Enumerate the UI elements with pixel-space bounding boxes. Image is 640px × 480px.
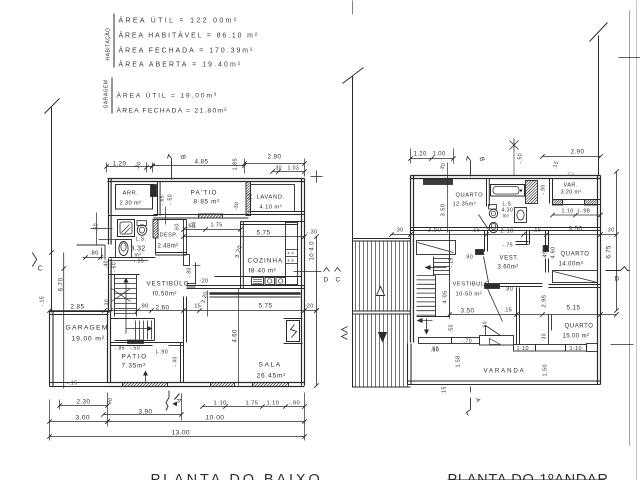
roof strip divider [353, 311, 411, 314]
bath2 bidet [489, 222, 497, 232]
bath bidet oval [116, 240, 132, 258]
patio dims [115, 346, 179, 367]
svg-text:ÀREA FECHADA = 21.80m²: ÀREA FECHADA = 21.80m² [117, 106, 228, 115]
svg-text:VESTIBÜLO: VESTIBÜLO [147, 281, 190, 288]
svg-text:L.S.: L.S. [136, 237, 147, 243]
vest label [498, 256, 520, 271]
right plan left wall [410, 176, 412, 343]
svg-text:13.00: 13.00 [172, 430, 191, 437]
dims .65 .50 below ARR [160, 194, 174, 225]
svg-text:12.35m²: 12.35m² [453, 202, 476, 208]
dim row 2.90 right plan [540, 149, 602, 171]
bath sink box [118, 220, 135, 237]
outer wall right [301, 179, 303, 386]
svg-text:ÁREA FECHADA = 170.39m²: ÁREA FECHADA = 170.39m² [119, 46, 255, 55]
svg-text:2.95: 2.95 [542, 295, 548, 308]
dim row 4.85 top [150, 158, 246, 171]
bath2 wall left [486, 179, 488, 207]
svg-text:-.15: -.15 [67, 381, 78, 387]
dim row .30 1.03 top-right [245, 159, 307, 177]
svg-text:·30: ·30 [395, 228, 404, 234]
garage walls [50, 312, 109, 387]
patio 7.35 label [122, 354, 148, 370]
svg-text:7.35m²: 7.35m² [122, 363, 147, 370]
vestibulo right wall stubs [184, 255, 208, 317]
right plan boundary right line with slash [590, 23, 608, 176]
svg-text:5.75: 5.75 [257, 230, 271, 237]
sala windows bottom [0, 0, 2, 2]
roof strip down arrow [379, 333, 387, 342]
svg-text:QUARTO: QUARTO [565, 324, 594, 330]
svg-text:.50: .50 [431, 347, 439, 353]
svg-text:·30: ·30 [542, 333, 548, 341]
dim row 3.50 5.15 right plan [447, 305, 618, 317]
patio bottom wall / window [154, 215, 249, 219]
quarto 12.35 label [453, 193, 484, 208]
varanda dims vertical [442, 355, 549, 394]
patio wall left [157, 182, 159, 216]
area info block - garagem [104, 78, 228, 115]
var bottom wall with hatches [553, 200, 601, 205]
svg-text:6.70: 6.70 [58, 278, 65, 292]
svg-text:6.75: 6.75 [607, 245, 613, 259]
svg-text:4.60: 4.60 [233, 329, 239, 343]
dim row 1.20 1.00 right plan [408, 149, 455, 173]
kitchen left wall [240, 222, 242, 289]
var window mark [568, 172, 576, 177]
mid dim row 2.85 .90 2.60 5.75 [47, 299, 318, 313]
svg-text:.15: .15 [504, 308, 513, 314]
svg-text:1.20: 1.20 [113, 161, 127, 168]
svg-text:PATIO: PATIO [122, 354, 148, 361]
roof strip bottom [353, 386, 411, 388]
svg-text:3.90: 3.90 [139, 409, 153, 416]
bath2 door leaf [479, 215, 489, 230]
svg-text:.60: .60 [175, 223, 181, 231]
svg-text:|-.98: |-.98 [578, 209, 591, 215]
svg-text:m²: m² [503, 214, 510, 220]
svg-text:.30: .30 [274, 166, 282, 172]
svg-text:5.75: 5.75 [259, 303, 273, 310]
dims 4.00 2.95 vertical [542, 245, 557, 308]
dim line 6.70 vertical garage [61, 253, 65, 389]
svg-text:3.60m²: 3.60m² [498, 265, 519, 271]
svg-text:1.50: 1.50 [543, 364, 549, 377]
desp label [158, 233, 179, 250]
window hatch patio bottom wall [123, 383, 168, 387]
svg-text:26.45m²: 26.45m² [257, 373, 287, 380]
svg-text:4.00: 4.00 [543, 245, 549, 258]
bath top wall [109, 215, 158, 217]
svg-text:4.60: 4.60 [551, 246, 557, 258]
svg-text:.60: .60 [192, 221, 198, 229]
wall right of vestibulo [517, 288, 520, 345]
quarto 14 wardrobe wedge [549, 271, 601, 288]
svg-text:PLANTA DO 1ºANDAR: PLANTA DO 1ºANDAR [448, 472, 609, 480]
svg-text:SALA: SALA [259, 362, 282, 369]
hatched duct wall right of bathtub [526, 181, 538, 204]
svg-text:-.50: -.50 [130, 346, 141, 352]
svg-text:3.50: 3.50 [428, 227, 442, 234]
svg-text:f8·40 m²: f8·40 m² [249, 268, 277, 275]
svg-text:1-10: 1-10 [570, 346, 582, 352]
stairwell right wall [449, 231, 451, 319]
bath2 sink [515, 208, 527, 223]
svg-text:.90: .90 [140, 304, 149, 310]
svg-text:.15: .15 [442, 386, 448, 394]
quarto 15 door swing [486, 326, 501, 336]
vest walls [476, 231, 530, 255]
svg-text:1·10: 1·10 [517, 346, 529, 352]
var hatch left [553, 200, 563, 206]
svg-text:-.15: -.15 [40, 296, 46, 307]
vest bottom wall [485, 284, 543, 293]
svg-text:10·4.0: 10·4.0 [310, 241, 316, 261]
svg-text:.80: .80 [90, 251, 99, 257]
vestibulo door leaf [488, 289, 503, 322]
svg-text:1.85: 1.85 [233, 158, 239, 171]
kitchen label [248, 258, 284, 275]
svg-text:-.50: -.50 [518, 153, 524, 164]
left boundary line with slash [45, 99, 60, 313]
title planta do 1 andar [448, 472, 609, 480]
outer wall bottom [109, 383, 305, 387]
svg-text:14.00m²: 14.00m² [559, 262, 584, 268]
svg-text:.15: .15 [472, 228, 481, 234]
svg-text:-.15: -.15 [134, 259, 145, 265]
sala left wall [184, 297, 187, 347]
desp walls [156, 220, 187, 256]
svg-text:1.75: 1.75 [246, 401, 259, 407]
dim row 3.50 2.10 3.50 [389, 226, 618, 237]
svg-text:3.00: 3.00 [76, 415, 90, 422]
dim 4.60 sala [233, 289, 239, 386]
door jamb right of ARR [151, 185, 157, 197]
var balcony label [561, 183, 582, 196]
svg-text:4.85: 4.85 [195, 159, 209, 166]
dim labels stair bottom [431, 321, 489, 353]
left arrows next to strip [342, 327, 348, 340]
svg-text:ARR.: ARR. [123, 191, 139, 197]
wall left of var [550, 179, 553, 204]
right plan main cross wall [411, 228, 601, 231]
svg-text:-.40: -.40 [173, 356, 179, 366]
bottom dim row 13.00 [47, 427, 306, 441]
svg-text:2.90: 2.90 [571, 149, 585, 156]
bottom dim row 1.10 1.75 1.10 .90 [200, 401, 306, 409]
entrance porch walk [77, 240, 117, 260]
bath2 labels [502, 202, 514, 220]
svg-text:PLANTA DO BAIXO: PLANTA DO BAIXO [151, 472, 323, 480]
kitchen top wall [241, 222, 305, 225]
svg-text:-.85: -.85 [115, 346, 126, 352]
svg-text:3.50: 3.50 [461, 308, 475, 315]
svg-text:ÀREA ABERTA = 19.40m²: ÀREA ABERTA = 19.40m² [119, 60, 243, 69]
svg-text:f0.50m²: f0.50m² [153, 291, 177, 298]
kitchen bottom wall [187, 286, 305, 298]
svg-text:19.00 m²: 19.00 m² [72, 336, 105, 343]
svg-text:.90: .90 [465, 255, 474, 261]
stairs right plan main flight [417, 276, 450, 335]
room ARR walls [116, 185, 153, 210]
kitchen cupboard star marks [287, 251, 295, 264]
house left wall garage side [107, 312, 109, 383]
svg-text:VARANDA: VARANDA [484, 368, 526, 375]
svg-text:-.70: -.70 [462, 339, 473, 345]
section marker A bottom right plan [467, 387, 482, 416]
dim row 2.90 top-right [242, 154, 306, 166]
svg-text:·20: ·20 [200, 279, 209, 285]
svg-text:.80: .80 [505, 287, 514, 293]
patio arrow [143, 371, 148, 382]
kitchen counter right wall [286, 223, 322, 285]
svg-text:LAVAND.: LAVAND. [257, 195, 285, 201]
area info block - habitacao [105, 14, 260, 69]
svg-text:C: C [38, 264, 44, 273]
roof strip hatching lower [356, 315, 408, 387]
svg-text:2.85: 2.85 [71, 304, 85, 311]
svg-text:QUARTO: QUARTO [561, 252, 590, 258]
roof strip hatching upper [356, 242, 408, 311]
right dim line 6.75 [607, 169, 619, 312]
dim .50 left wall [91, 213, 113, 245]
svg-text:ÀREA ÚTIL = 19.00m³: ÀREA ÚTIL = 19.00m³ [117, 91, 218, 100]
svg-text:GARAGEM: GARAGEM [104, 79, 110, 108]
svg-text:-.30: -.30 [307, 230, 318, 236]
sala heater [284, 319, 303, 344]
svg-text:3.20 m²: 3.20 m² [561, 190, 582, 196]
outer wall left lower [108, 259, 110, 312]
bath labels [131, 237, 147, 265]
kitchen counter bottom [215, 277, 302, 285]
bath toilet [137, 221, 147, 236]
svg-text:2.30 m²: 2.30 m² [120, 201, 142, 207]
scan edge lines right [611, 1, 640, 480]
stair flight 1 [109, 275, 140, 334]
svg-text:QUARTO: QUARTO [456, 193, 484, 199]
dim .15 garage wall [40, 296, 46, 307]
svg-text:-.90: -.90 [289, 401, 301, 407]
stair flight 2 [111, 319, 155, 344]
dims .40 .60 below porch [104, 260, 118, 272]
svg-text:2.90: 2.90 [268, 154, 282, 161]
svg-text:1.75: 1.75 [211, 223, 223, 229]
svg-text:3.32: 3.32 [131, 246, 146, 253]
svg-text:-.75: -.75 [503, 243, 514, 249]
right plan boundary left line with slash [343, 68, 364, 388]
svg-text:1.10: 1.10 [562, 209, 574, 215]
section marker A bottom [166, 391, 182, 411]
section marker C [32, 253, 43, 273]
section marker B top [168, 154, 187, 179]
varanda walls [408, 344, 601, 385]
svg-text:1·10: 1·10 [214, 401, 227, 407]
svg-text:1.20: 1.20 [414, 152, 428, 158]
svg-text:3.50: 3.50 [441, 204, 447, 217]
patio 7.35 walls [111, 343, 184, 383]
svg-text:2·10: 2·10 [501, 229, 514, 235]
svg-text:-.80: -.80 [187, 267, 193, 277]
right dim line 10.40 [305, 234, 319, 387]
svg-text:15.00 m²: 15.00 m² [563, 334, 590, 340]
svg-text:5.15: 5.15 [567, 305, 581, 312]
quarto 14 label [559, 252, 590, 268]
svg-text:.50: .50 [449, 324, 455, 332]
section marker D C mid [324, 268, 341, 284]
dim 5.75 kitchen row [181, 230, 317, 239]
svg-text:3.50: 3.50 [569, 226, 583, 233]
svg-text:2.48m²: 2.48m² [158, 244, 179, 250]
bottom dim row 3.90 [101, 394, 183, 421]
center axis mark right plan [510, 139, 524, 176]
lavand label [257, 195, 285, 211]
var hatch right [585, 200, 598, 206]
svg-text:·30: ·30 [606, 228, 615, 234]
quarto 15 top wall [549, 315, 552, 345]
svg-text:4·05: 4·05 [443, 290, 449, 303]
section marker D right [606, 267, 630, 283]
patio 8.85 label [191, 190, 220, 206]
dim 1.10 .98 var [550, 209, 602, 218]
outer wall left upper [108, 179, 110, 245]
svg-text:-.30: -.30 [105, 299, 111, 310]
quarto 12.35 window bar in top wall [424, 179, 453, 185]
dims near vestibulo kitchen [187, 267, 210, 304]
svg-text:HABITAÇÃO: HABITAÇÃO [105, 27, 112, 60]
svg-text:DESP.: DESP. [160, 233, 178, 239]
svg-text:VAR.: VAR. [564, 183, 578, 189]
svg-text:1.10: 1.10 [267, 401, 280, 407]
vestibulo2 label [453, 282, 490, 298]
svg-text:4.10 m²: 4.10 m² [260, 205, 282, 211]
bottom dim row 2.30 [57, 397, 114, 410]
svg-text:C: C [336, 277, 341, 284]
bottom dim row 3.00 [47, 393, 109, 427]
svg-text:10·00: 10·00 [206, 415, 225, 422]
svg-text:D: D [324, 277, 329, 284]
svg-text:.15: .15 [533, 228, 542, 234]
bath right wall hatched [153, 220, 158, 239]
svg-text:ÁREA ÚTIL = 122.00m²: ÁREA ÚTIL = 122.00m² [119, 16, 239, 25]
sala label [257, 362, 287, 380]
stairs right plan upper flight [425, 257, 450, 276]
roof hatch strip [353, 239, 411, 242]
svg-text:2.30: 2.30 [77, 399, 91, 406]
dim 6.70 garage left [49, 250, 64, 291]
vest door leaf [484, 257, 489, 283]
svg-text:-.60: -.60 [112, 262, 118, 273]
dim .60 1.75 row [175, 221, 243, 231]
svg-text:-.50: -.50 [168, 194, 174, 205]
varanda top wall stepped [419, 336, 598, 352]
vest dims [449, 243, 514, 268]
roof strip up arrow [377, 287, 385, 296]
svg-text:VEST.: VEST. [500, 256, 520, 262]
window hatch patio bottom [199, 214, 223, 218]
outer wall top [108, 178, 305, 180]
bottom dim row 10.00 [105, 393, 306, 441]
svg-text:.40: .40 [104, 260, 110, 268]
svg-text:PA'TIO: PA'TIO [191, 190, 218, 197]
svg-text:10-50 m²: 10-50 m² [456, 292, 482, 298]
svg-text:GARAGEM: GARAGEM [66, 325, 109, 332]
vestibulo label [147, 281, 190, 298]
quarto 15 label [563, 324, 594, 340]
right plan top wall [411, 175, 601, 177]
corner cross mark top-right [311, 171, 323, 183]
room ARR label [120, 191, 142, 207]
svg-text:✳✳: ✳✳ [287, 258, 295, 263]
svg-text:VESTIBULO: VESTIBULO [453, 282, 490, 288]
right plan right wall [597, 176, 599, 385]
svg-text:✳✳: ✳✳ [287, 251, 295, 256]
svg-text:8·85 m²: 8·85 m² [194, 199, 220, 206]
svg-text:2.60: 2.60 [156, 305, 170, 312]
top center fold line [352, 1, 354, 15]
svg-text:D: D [615, 276, 620, 283]
bath2 bathtub [491, 185, 525, 197]
dim row 1.20 / .30 top-left [104, 161, 154, 173]
svg-text:1.03: 1.03 [288, 166, 300, 172]
svg-text:1.00: 1.00 [433, 152, 447, 158]
svg-text:ÁREA HABITÁVEL = 86.10 m²: ÁREA HABITÁVEL = 86.10 m² [119, 31, 260, 40]
bath bottom wall [109, 258, 156, 261]
svg-text:-.90: -.90 [541, 184, 547, 194]
lavand walls [249, 185, 305, 215]
svg-text:.63: .63 [248, 193, 254, 201]
svg-text:COZINHA: COZINHA [248, 258, 284, 265]
svg-text:1.58: 1.58 [456, 355, 462, 367]
garage label [66, 325, 109, 343]
quarto 14 door wall [542, 231, 549, 273]
svg-text:|-.90: |-.90 [156, 350, 169, 356]
lavand left wall hatched [246, 182, 251, 216]
svg-text:.15: .15 [193, 304, 202, 310]
bath2 toilet [489, 205, 498, 218]
section line through quarto 12 [447, 163, 449, 233]
varanda dims 1.10 [431, 333, 582, 352]
closet wedge above stairs [417, 241, 456, 255]
section marker B right plan [467, 156, 486, 176]
window hatch sala bottom right [253, 383, 289, 387]
